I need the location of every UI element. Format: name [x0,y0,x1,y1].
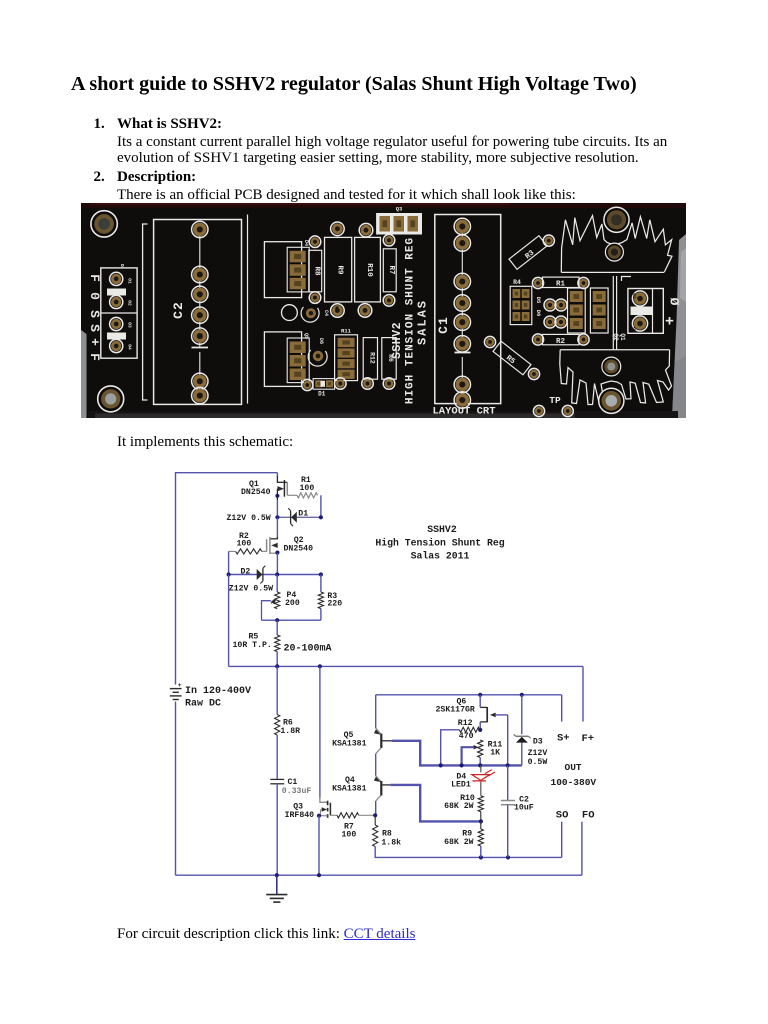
transistor Q5 [376,728,381,734]
transistor Q3 [320,798,327,803]
svg-text:O2: O2 [127,300,133,306]
wire D3 bottom [521,742,523,765]
svg-text:C2: C2 [171,301,186,319]
wire R2 stub [229,550,236,552]
svg-text:TP: TP [549,395,561,406]
resistor R5 [275,635,280,652]
wire R9 bottom [480,846,482,857]
diode C4 pad [306,308,316,318]
node Q3 source [317,814,321,818]
terminal pads [110,272,123,285]
svg-text:LED1: LED1 [451,781,471,790]
node D2 mid [275,572,279,576]
wire Q3 source down [318,816,320,876]
wire D4 top [480,765,482,772]
wire R9 top stub [480,821,482,829]
resistor R8 [373,825,378,847]
svg-text:Q1: Q1 [619,333,626,341]
capacitor C2 bracket [143,224,148,400]
svg-text:SO: SO [556,810,569,822]
svg-text:200: 200 [285,599,300,608]
wire R3 top [320,575,322,593]
transistor Q4 [376,776,381,782]
node D1 left [275,515,279,519]
mid mid pads [336,307,338,309]
wire R8 top stub [374,815,376,825]
capacitor C1 polarity mark [455,352,471,354]
node ref rail C2 [506,763,510,767]
battery In [170,688,182,690]
svg-text:KSA1381: KSA1381 [332,739,366,748]
resistor R9 body [325,237,352,302]
svg-text:D5: D5 [535,297,542,304]
resistor R1 [297,493,318,498]
cap C1e outline [282,305,298,321]
diode D3 [516,735,529,737]
svg-text:100: 100 [342,831,357,840]
svg-text:D4: D4 [303,240,309,246]
wire Q4 collector down [375,801,377,815]
wire R7 to node [359,814,376,816]
wire R5 bottom [276,652,278,667]
node ref rail wiper [460,763,464,767]
wire R10 bottom [480,812,482,822]
wire P4 wiper loop [262,601,271,621]
wire C1 down [276,784,278,875]
wire R6 top [276,666,278,714]
mid bottom pads [302,379,313,390]
svg-text:0: 0 [87,292,102,300]
wire Q5 base thick [392,741,522,766]
diode D2 [257,569,263,580]
svg-text:100: 100 [300,484,315,493]
mounting hole bottom sun big [599,388,624,413]
wire Q4 base thick [390,785,481,822]
wire Q3 drain feed [319,666,321,797]
svg-text:FO: FO [582,810,595,822]
node P4 bottom [275,618,279,622]
svg-text:S: S [87,324,102,332]
wire R5 top [276,620,278,635]
resistor R6 body [382,338,396,380]
resistor R4 block [510,286,532,324]
svg-text:Z12V 0.5W: Z12V 0.5W [229,584,273,593]
wire D2 row [229,574,321,576]
svg-text:F: F [87,353,102,361]
svg-text:IRF840: IRF840 [285,811,315,820]
resistor R1 box [543,277,580,287]
connector Q3 [376,213,422,235]
wire R8 bottom to SO [375,847,562,858]
svg-text:Ø: Ø [667,298,682,306]
node S rail D3 [520,693,524,697]
mounting hole bottom sun small [602,357,621,376]
wire S rail [376,694,562,696]
separator lines [612,276,614,349]
svg-text:D1: D1 [318,391,326,398]
middle section border [247,215,249,404]
wire D3 top [521,695,523,734]
output white bar [631,307,653,316]
pcb bottom edge [88,411,678,418]
svg-text:R4: R4 [513,279,521,286]
svg-text:Z12V 0.5W: Z12V 0.5W [227,514,271,523]
svg-text:R8: R8 [313,266,321,276]
svg-text:SSHV2: SSHV2 [391,322,404,359]
heatsink sun bottom baseline [560,349,669,351]
terminal white bars [107,289,126,296]
resistor R5 angled [493,341,531,375]
resistor R12 [459,727,479,732]
mounting hole bottom-left [98,386,124,412]
wire Q6 gate down [507,715,509,766]
resistor R2 [236,549,262,554]
pcb left concrete sliver [81,330,87,418]
wire P4 bottom row [262,619,321,621]
wire R1 to D1 [320,495,322,517]
pads grid mid [544,299,556,311]
wire left rail lower [175,702,177,876]
svg-text:220: 220 [327,600,342,609]
node SO row R9 [479,855,483,859]
capacitor C1 trace [461,232,463,345]
resistor R10 body [355,237,381,302]
node Q2 source [275,551,279,555]
svg-text:+: + [178,682,182,689]
node ref rail R12 [439,763,443,767]
node R10 R9 [479,819,483,823]
resistor R7 [337,813,359,818]
svg-text:LAYOUT CRT: LAYOUT CRT [432,406,495,418]
capacitor C1 pads [454,218,470,234]
node S rail Q6 [478,693,482,697]
capacitor C1 [270,778,284,780]
capacitor C2 trace [199,232,201,340]
node F rail R5 [275,664,279,668]
corner mark [622,277,632,282]
svg-text:0.33uF: 0.33uF [282,787,312,796]
output pads [632,291,647,306]
svg-text:D6: D6 [318,338,324,344]
pads TP [533,405,544,416]
wire F+ drop [582,666,584,721]
node D1 right [319,515,323,519]
heatsink sun top [561,216,672,273]
heatsink sun top baseline [561,271,664,273]
svg-text:+: + [87,338,102,346]
svg-text:D2: D2 [241,568,251,577]
resistor R9 [478,829,483,846]
svg-text:1.8k: 1.8k [381,837,401,847]
terminal block F [101,268,137,358]
node D2 right [319,572,323,576]
resistor R9 pads [331,222,345,236]
svg-text:Q3: Q3 [396,206,403,213]
transistor Q6 [479,695,481,707]
svg-text:DN2540: DN2540 [241,488,271,497]
svg-text:C1: C1 [288,778,298,787]
PCB PHOTO [81,203,686,418]
svg-text:F: F [87,274,102,282]
connector Q5 [287,338,309,383]
svg-text:KSA1381: KSA1381 [332,784,366,793]
connector R11 [335,335,358,381]
node R12 right [478,728,482,732]
svg-text:R7: R7 [387,265,395,274]
diode D6 [313,351,323,361]
resistor R7 body [383,249,396,292]
wire S+ drop [561,695,563,722]
svg-text:+: + [665,314,674,331]
wire D1 row [277,516,321,518]
resistor R12 body [363,338,377,380]
wire R11 wiper [462,747,474,765]
svg-text:0.5W: 0.5W [528,758,548,767]
wire F rail horizontal [229,665,583,667]
svg-text:1.8R: 1.8R [280,727,300,736]
svg-text:D6: D6 [535,310,542,317]
svg-text:1K: 1K [490,749,500,758]
wire top rail [176,472,278,474]
svg-text:R2: R2 [556,338,566,346]
resistor R3 [318,592,323,609]
pcb top maroon edge [81,203,686,208]
led D4 [472,775,490,781]
potentiometer P4 [275,592,280,609]
wire Q2 source down [276,553,278,575]
mounting hole top sun big [604,207,629,232]
ground symbol [276,875,278,894]
wire F rail [228,575,230,667]
wire R7 stub left [330,814,337,816]
node ground rail Q3 [317,873,321,877]
diode D1 [291,512,297,523]
bracket D4 [264,242,301,298]
mounting hole top sun small [605,243,623,261]
svg-text:In 120-400V: In 120-400V [185,686,251,697]
svg-text:D1: D1 [298,510,308,519]
svg-text:Z12V: Z12V [528,749,548,758]
node R7 R8 [373,813,377,817]
node F rail Q3 [318,664,322,668]
svg-text:10uF: 10uF [514,803,534,812]
capacitor C2 [507,765,509,800]
svg-text:High Tension Shunt Reg: High Tension Shunt Reg [375,537,504,548]
svg-text:D: D [119,264,125,267]
resistor R10 pads [359,223,373,237]
svg-text:R1: R1 [556,281,566,289]
svg-text:O1: O1 [631,327,637,333]
bracket Q5 [264,332,301,387]
svg-text:D3: D3 [533,738,543,747]
wire R11 bottom [479,758,481,766]
svg-text:R11: R11 [341,328,352,335]
svg-text:100: 100 [237,539,252,548]
svg-text:C1: C1 [436,316,451,334]
svg-text:470: 470 [459,732,474,741]
node D2 left [227,572,231,576]
svg-text:20-100mA: 20-100mA [284,643,332,654]
resistor R7 pads [383,234,395,246]
pcb photo background [81,203,686,418]
pcb right concrete band [672,234,686,418]
wire R3 bottom [320,609,322,621]
wire FO drop [581,822,583,876]
wire Q5 feed [375,695,377,728]
resistor R3 angled [509,236,548,270]
svg-text:10R T.P.: 10R T.P. [233,641,272,650]
connector D4 [287,247,309,292]
svg-text:C4: C4 [323,310,329,316]
svg-text:R12: R12 [369,352,376,364]
resistor R10 [478,796,483,812]
svg-text:2SK117GR: 2SK117GR [436,705,475,714]
svg-text:DN2540: DN2540 [284,544,314,553]
svg-text:OUT: OUT [565,762,582,773]
capacitor C2 pads [192,221,208,237]
svg-text:SALAS: SALAS [416,299,430,345]
svg-text:R10: R10 [365,263,373,277]
wire left rail upper [175,472,177,685]
svg-text:O4: O4 [127,344,133,350]
resistor R2 box [543,334,580,344]
svg-text:S+: S+ [557,733,570,745]
svg-text:R12: R12 [458,719,473,728]
wire D4 to R10 [480,782,482,796]
wire Q5 collector down [375,754,377,776]
wire ground rail [176,874,582,876]
transistor Q1 [276,476,278,482]
node Q1 gate [275,494,279,498]
svg-text:O1: O1 [127,278,133,284]
wire Q1 drain drop [276,473,278,477]
svg-text:S: S [87,310,102,318]
connector Q1 [590,288,608,333]
wire R12 left [441,730,460,766]
capacitor C2 polarity mark [192,347,209,349]
svg-text:R9: R9 [335,265,343,275]
capacitor C2 box [154,220,242,405]
node SO row C2 [506,855,510,859]
resistor R6 [275,715,280,736]
transistor Q2 [276,537,278,539]
mounting hole top-left [91,211,117,237]
capacitor C1 box [435,215,501,404]
svg-text:F+: F+ [582,733,595,745]
svg-text:O2: O2 [631,293,637,299]
svg-text:SSHV2: SSHV2 [427,524,457,535]
wire Q1 gate down [276,500,278,517]
wire Q2 drain drop [276,517,278,538]
node ref rail R11 [478,763,482,767]
node ground rail C1 [275,873,279,877]
connector Q2 [568,288,586,333]
diode D1 [313,379,335,390]
wire R6 to C1 [276,735,278,779]
svg-text:68K 2W: 68K 2W [444,802,474,811]
svg-text:68K 2W: 68K 2W [444,838,474,847]
wire R2 left down [228,551,230,574]
resistor R8 pads [309,236,321,248]
svg-text:Q5: Q5 [303,333,309,339]
svg-text:Raw DC: Raw DC [185,699,221,710]
heatsink sun bottom [560,350,672,405]
resistor R8 body [309,250,322,291]
svg-text:O3: O3 [127,322,133,328]
wire P4 top [276,575,278,593]
svg-text:100-380V: 100-380V [551,777,597,788]
potentiometer R11 [478,740,483,758]
wire SO up [561,822,563,858]
output block [628,289,663,334]
svg-text:Salas 2011: Salas 2011 [411,551,470,562]
